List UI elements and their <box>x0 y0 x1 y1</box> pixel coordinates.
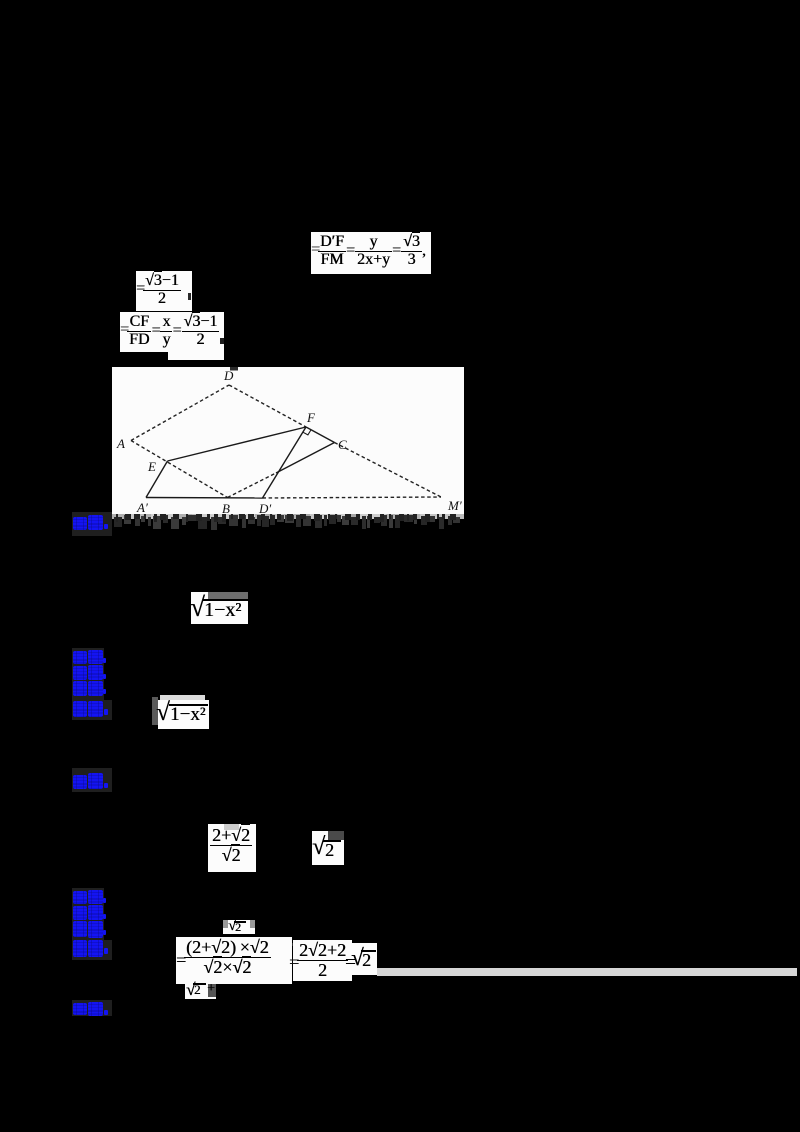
wire solid G-C <box>276 443 335 474</box>
formula image F2: = (sqrt3 - 1)/2 <box>136 271 192 311</box>
formula image F9: = (2+sqrt2) x sqrt2 / (sqrt2 x sqrt2) <box>176 937 292 984</box>
wire solid A'-D' <box>146 497 263 500</box>
wire dashed A-B <box>131 441 228 498</box>
wire dashed C-M' <box>335 443 442 498</box>
wire solid F-C <box>306 427 335 443</box>
wire solid F-D' <box>263 427 307 498</box>
blue label block 2: kaodian/zhuanti/fenxi/jieda <box>72 888 104 940</box>
blue label line 1 (dian ping) <box>72 512 112 536</box>
light gray underline strip <box>377 968 797 976</box>
blue label line 3 (dian ping) <box>72 1000 112 1016</box>
formula image F12: sqrt2 + <box>185 982 216 999</box>
wire dashed D-F (part of D-M') <box>229 385 306 427</box>
blue label block 1: kaodian/zhuanti/fenxi/jieda <box>72 648 104 700</box>
figure bottom strip: cut-off hidden text row <box>112 505 464 531</box>
formula image F3: = CF/FD = x/y = (sqrt3-1)/2 <box>168 312 224 360</box>
svg-text:A: A <box>116 436 125 451</box>
formula image F8: small sqrt2 <box>223 920 255 934</box>
formula image F1: D'F/FM = y/(2x+y) = sqrt(3)/3 <box>311 232 431 274</box>
formula image F10: = (2 sqrt2 + 2)/2 <box>293 940 352 981</box>
formula image F5: sqrt(1-x^2) second <box>160 695 205 700</box>
geometry figure image <box>112 367 464 514</box>
svg-text:E: E <box>147 459 156 474</box>
hidden text garble line above big fraction <box>178 934 352 940</box>
wire dashed B-G <box>228 473 277 498</box>
formula image F6: (2+sqrt2)/sqrt2 <box>208 824 256 872</box>
formula image F11: = sqrt2 <box>349 943 377 975</box>
wire solid A'-E <box>146 461 168 498</box>
svg-text:D: D <box>223 368 234 383</box>
formula image F4: sqrt(1-x^2) <box>191 592 248 624</box>
formula image F7: sqrt2 <box>312 831 344 865</box>
wire dashed D'-M' <box>263 497 442 498</box>
wire dashed A-D <box>131 385 229 441</box>
svg-text:F: F <box>306 410 316 425</box>
wire solid E-F <box>168 427 307 461</box>
right angle mark at F <box>303 430 311 435</box>
blue label line 2 (dian ping) <box>72 768 112 792</box>
svg-text:C: C <box>338 437 347 452</box>
